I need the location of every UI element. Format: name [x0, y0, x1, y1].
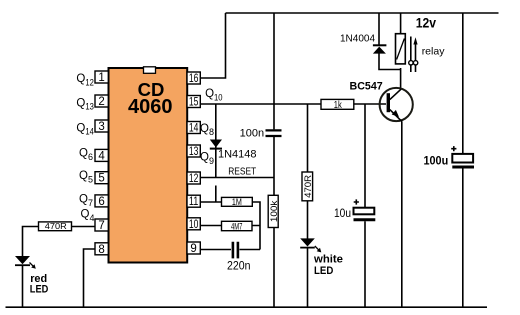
svg-text:RESET: RESET — [228, 167, 256, 178]
svg-text:10: 10 — [189, 219, 199, 231]
svg-text:100u: 100u — [424, 155, 449, 167]
svg-text:12: 12 — [189, 173, 199, 185]
svg-text:1: 1 — [98, 72, 104, 84]
svg-text:10u: 10u — [334, 206, 351, 220]
svg-text:1k: 1k — [334, 100, 343, 111]
svg-text:BC547: BC547 — [350, 80, 383, 92]
svg-text:3: 3 — [98, 121, 104, 133]
svg-text:9: 9 — [190, 243, 196, 255]
svg-text:11: 11 — [189, 196, 199, 208]
svg-text:8: 8 — [98, 244, 104, 256]
svg-text:470R: 470R — [45, 221, 67, 231]
svg-text:7: 7 — [98, 220, 104, 232]
svg-text:1M: 1M — [232, 197, 242, 207]
svg-text:4M7: 4M7 — [231, 221, 243, 231]
svg-text:15: 15 — [189, 97, 199, 109]
svg-text:5: 5 — [98, 173, 104, 185]
svg-text:LED: LED — [314, 265, 333, 277]
svg-text:white: white — [313, 254, 343, 266]
svg-text:12v: 12v — [416, 15, 436, 31]
svg-text:LED: LED — [30, 284, 49, 296]
svg-text:14: 14 — [189, 123, 199, 135]
svg-text:1N4004: 1N4004 — [340, 34, 375, 45]
svg-text:470R: 470R — [303, 174, 313, 198]
svg-text:relay: relay — [422, 46, 446, 58]
svg-text:4: 4 — [98, 150, 105, 162]
svg-text:6: 6 — [98, 196, 104, 208]
svg-text:100n: 100n — [240, 127, 264, 139]
svg-text:13: 13 — [189, 146, 199, 158]
svg-text:220n: 220n — [227, 261, 251, 273]
svg-text:100k: 100k — [269, 200, 280, 222]
svg-text:16: 16 — [189, 73, 199, 85]
svg-text:2: 2 — [98, 96, 104, 108]
svg-text:1N4148: 1N4148 — [218, 149, 257, 161]
svg-text:4060: 4060 — [128, 96, 173, 118]
